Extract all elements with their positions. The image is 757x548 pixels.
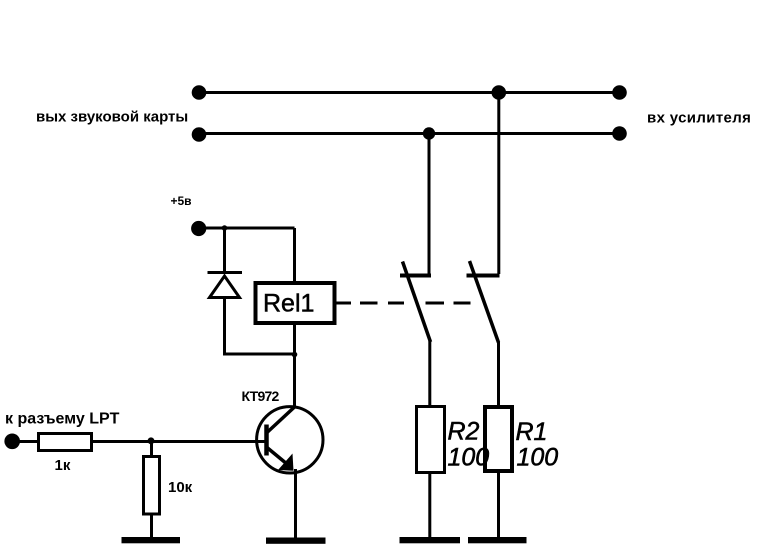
svg-text:к разъему LPT: к разъему LPT (5, 410, 120, 427)
wire SW2 drop from top line (497, 93, 500, 275)
transistor Q1 emitter diagonal (267, 448, 290, 467)
wire R1 to ground (497, 471, 500, 538)
wire emitter to ground (294, 469, 297, 538)
node: +5v supply terminal (191, 221, 206, 236)
transistor Q1 base bar (264, 425, 269, 456)
svg-text:100: 100 (517, 444, 559, 472)
wire collector lead (293, 354, 296, 408)
relay Rel1 box (256, 283, 335, 323)
label: вых звуковой карты (36, 109, 188, 126)
svg-text:10к: 10к (168, 479, 193, 496)
wire R2 to ground (428, 473, 431, 539)
ground under R2 (400, 537, 461, 543)
resistor R2 body (417, 407, 445, 473)
svg-text:R2: R2 (448, 418, 480, 446)
label: вх усилителя (647, 109, 751, 126)
wire LPT terminal to R3 (12, 440, 38, 443)
wire relay coil bottom lead (293, 325, 296, 354)
label: к разъему LPT (5, 410, 120, 427)
wire relay coil top lead (293, 228, 296, 282)
node: junction diode anode branch (222, 225, 228, 231)
ground under R4 (122, 537, 181, 543)
wire R3 to base (92, 440, 266, 443)
wire diode bottom to relay bottom (223, 353, 295, 356)
wire +5v rail (199, 227, 295, 230)
relay contact SW1 arm (403, 262, 431, 343)
node: amplifier input terminal top (612, 85, 627, 100)
node: sound card output terminal bottom (192, 127, 207, 142)
diode VD1 triangle (210, 276, 240, 298)
transistor Q1 collector diagonal (267, 407, 295, 433)
label: 1к (55, 457, 71, 474)
label: R2 (448, 418, 480, 446)
relay contact SW2 fixed bar (467, 274, 500, 278)
resistor R4 10k body (144, 457, 160, 515)
label: R1 value 100 (517, 444, 559, 472)
diode VD1 cathode bar (208, 271, 243, 274)
transistor Q1 emitter arrow (278, 454, 294, 471)
svg-text:вых звуковой карты: вых звуковой карты (36, 109, 188, 126)
label: Rel1 (263, 290, 314, 318)
ground under Q1 (266, 538, 326, 544)
resistor R1 body (485, 407, 512, 471)
svg-text:R1: R1 (516, 418, 548, 446)
ground under R1 (468, 537, 527, 543)
wire SW1 to R2 (428, 341, 431, 406)
node: junction base / R4 (148, 437, 155, 444)
label: R2 value 100 (448, 444, 490, 472)
relay contact SW1 fixed bar (400, 274, 431, 278)
wire R4 top lead (150, 442, 153, 457)
node: LPT input terminal (4, 434, 20, 450)
transistor Q1 circle (257, 407, 323, 473)
label: 10к (168, 479, 193, 496)
dashed mechanical link relay to contacts (336, 302, 471, 305)
svg-text:КТ972: КТ972 (242, 388, 280, 404)
resistor R3 1k body (39, 434, 92, 451)
wire SW1 drop from bottom line (428, 134, 431, 275)
label: R1 (516, 418, 548, 446)
svg-text:1к: 1к (55, 457, 71, 474)
node: junction bottom line to SW1 (423, 127, 435, 139)
svg-text:+5в: +5в (171, 194, 192, 208)
node: sound card output terminal top (192, 85, 207, 100)
node: junction top line to SW2 (492, 85, 507, 100)
wire diode cathode lead (223, 228, 226, 273)
wire R4 to ground (150, 514, 153, 538)
label: +5в (171, 194, 192, 208)
wire bottom audio line R (199, 132, 620, 135)
node: amplifier input terminal bottom (612, 126, 627, 141)
label: KT972 (242, 388, 280, 404)
wire SW2 to R1 (497, 342, 500, 406)
wire top audio line L (199, 91, 620, 94)
wire diode anode lead (223, 299, 226, 354)
node: junction relay bottom / diode / collector (292, 352, 298, 358)
svg-text:Rel1: Rel1 (263, 290, 314, 318)
svg-text:вх усилителя: вх усилителя (647, 109, 751, 126)
relay contact SW2 arm (470, 261, 499, 343)
